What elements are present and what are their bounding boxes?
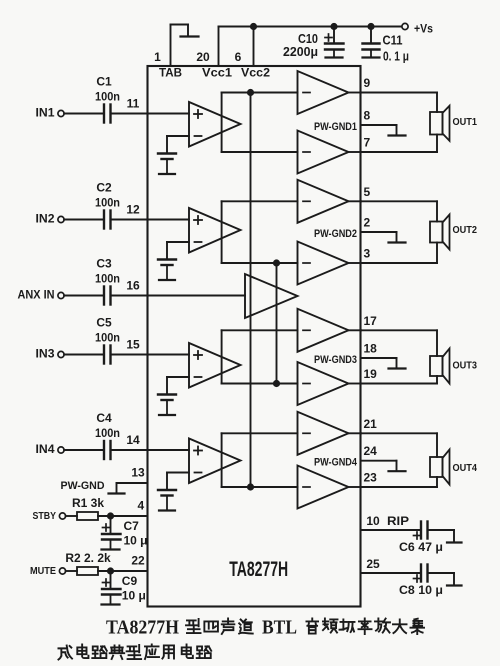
svg-text:24: 24 xyxy=(364,444,378,458)
svg-text:8: 8 xyxy=(364,109,371,123)
svg-text:IN3: IN3 xyxy=(36,347,55,361)
svg-text:3: 3 xyxy=(364,247,371,261)
svg-text:6: 6 xyxy=(235,50,242,64)
svg-text:100n: 100n xyxy=(95,426,120,440)
svg-text:5: 5 xyxy=(364,185,371,199)
svg-text:C2: C2 xyxy=(96,181,112,195)
svg-text:Vcc1: Vcc1 xyxy=(202,66,232,80)
svg-text:7: 7 xyxy=(364,136,371,150)
svg-text:4: 4 xyxy=(137,499,144,513)
svg-text:PW-GND3: PW-GND3 xyxy=(314,354,357,366)
svg-text:20: 20 xyxy=(196,50,210,64)
svg-text:PW-GND4: PW-GND4 xyxy=(314,457,358,469)
svg-text:12: 12 xyxy=(126,203,140,217)
svg-text:13: 13 xyxy=(131,466,145,480)
svg-text:PW-GND2: PW-GND2 xyxy=(314,228,357,240)
svg-text:100n: 100n xyxy=(95,331,120,345)
svg-text:IN2: IN2 xyxy=(36,212,55,226)
svg-text:19: 19 xyxy=(364,367,378,381)
svg-text:11: 11 xyxy=(127,97,140,111)
svg-text:STBY: STBY xyxy=(33,510,57,522)
svg-text:R2 2. 2k: R2 2. 2k xyxy=(65,551,111,565)
svg-text:10 μ: 10 μ xyxy=(124,534,148,548)
svg-text:15: 15 xyxy=(126,338,140,352)
svg-text:TAB: TAB xyxy=(159,66,182,80)
svg-text:25: 25 xyxy=(366,557,380,571)
svg-text:OUT2: OUT2 xyxy=(453,224,478,236)
svg-text:14: 14 xyxy=(126,433,140,447)
svg-text:+Vs: +Vs xyxy=(414,22,433,36)
svg-text:100n: 100n xyxy=(95,196,120,210)
svg-text:C3: C3 xyxy=(96,257,112,271)
svg-text:C9: C9 xyxy=(122,574,138,588)
svg-text:23: 23 xyxy=(364,471,378,485)
svg-text:OUT4: OUT4 xyxy=(453,462,478,474)
svg-text:TA8277H: TA8277H xyxy=(229,558,288,581)
svg-text:17: 17 xyxy=(364,314,378,328)
svg-text:16: 16 xyxy=(126,279,140,293)
svg-text:10: 10 xyxy=(366,514,380,528)
svg-text:22: 22 xyxy=(131,554,145,568)
svg-text:PW-GND1: PW-GND1 xyxy=(314,121,357,133)
svg-text:RIP: RIP xyxy=(387,514,409,528)
svg-text:OUT1: OUT1 xyxy=(453,116,478,128)
svg-text:R1 3k: R1 3k xyxy=(72,496,104,510)
svg-text:2200μ: 2200μ xyxy=(283,44,318,59)
svg-text:C1: C1 xyxy=(96,75,112,89)
svg-text:TA8277H: TA8277H xyxy=(106,617,179,639)
svg-text:C11: C11 xyxy=(383,33,403,48)
svg-text:9: 9 xyxy=(364,76,371,90)
svg-text:10 μ: 10 μ xyxy=(122,589,146,603)
svg-text:C4: C4 xyxy=(96,411,112,425)
svg-text:OUT3: OUT3 xyxy=(453,359,478,371)
svg-text:1: 1 xyxy=(154,50,161,64)
svg-text:C5: C5 xyxy=(96,316,112,330)
svg-text:C6 47 μ: C6 47 μ xyxy=(399,540,443,554)
svg-text:100n: 100n xyxy=(95,272,120,286)
svg-text:PW-GND: PW-GND xyxy=(61,480,105,492)
svg-text:C7: C7 xyxy=(124,519,140,533)
svg-text:0. 1 μ: 0. 1 μ xyxy=(383,49,409,64)
svg-text:BTL: BTL xyxy=(262,617,297,639)
svg-text:100n: 100n xyxy=(95,90,120,104)
svg-text:18: 18 xyxy=(364,342,378,356)
svg-text:Vcc2: Vcc2 xyxy=(241,66,270,80)
svg-text:2: 2 xyxy=(364,216,371,230)
svg-text:C8 10 μ: C8 10 μ xyxy=(399,583,443,597)
svg-text:IN4: IN4 xyxy=(36,442,55,456)
svg-text:MUTE: MUTE xyxy=(30,565,56,577)
svg-text:21: 21 xyxy=(364,417,378,431)
svg-text:ANX IN: ANX IN xyxy=(18,288,55,302)
svg-text:IN1: IN1 xyxy=(36,106,55,120)
